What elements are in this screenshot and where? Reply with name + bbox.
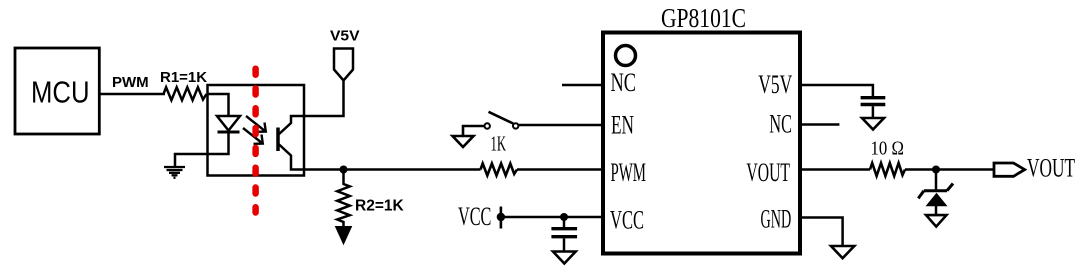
phototransistor Q [278,116,304,170]
ground (zener) [926,215,947,227]
pin NC right stub [800,123,839,126]
LED diode (opto) [217,116,240,132]
zener diode D1 [918,170,953,215]
light arrow 2 [243,128,263,144]
ground (V5V cap) [862,118,884,130]
wire collector to V5V [304,81,344,116]
resistor 10 Ohm [870,163,905,176]
svg-text:1K: 1K [491,132,507,156]
pin1 marker circle [616,46,636,66]
wire emitter to PWM pin [304,168,481,171]
svg-text:VOUT: VOUT [1027,154,1075,183]
svg-text:VCC: VCC [610,206,644,235]
node junction zener [932,166,940,174]
earth ground (LED cathode) [164,167,185,178]
wire switch to EN [519,124,602,127]
svg-text:VOUT: VOUT [746,158,790,187]
red dashed isolation line [252,69,259,213]
VCC pin marker [500,207,503,229]
switch ground [453,126,485,147]
ground (VCC cap) [553,252,576,264]
node junction R2 [340,166,348,174]
V5V power tag [334,49,353,81]
light arrow 1 [246,116,266,132]
svg-text:GP8101C: GP8101C [661,2,746,33]
wire resistor to connector [905,168,994,171]
svg-text:PWM: PWM [611,158,647,187]
wire VOUT pin [800,168,870,171]
svg-text:NC: NC [611,68,637,97]
wire V5V pin to cap [800,85,873,96]
MCU box U2 [15,48,99,134]
svg-text:R1=1K: R1=1K [160,69,207,86]
resistor R1 [164,87,207,100]
capacitor C1 (VCC) [551,217,577,251]
svg-text:MCU: MCU [31,76,90,110]
svg-text:VCC: VCC [458,202,491,231]
VOUT connector tag [994,163,1025,176]
resistor R2 vertical [337,170,350,227]
ground (GND pin) [831,246,854,258]
svg-text:PWM: PWM [112,74,149,91]
svg-text:GND: GND [761,205,792,234]
node junction VCC cap [560,213,568,221]
wire LED anode [208,94,229,116]
svg-text:EN: EN [611,111,634,140]
svg-text:V5V: V5V [758,70,792,99]
svg-text:R2=1K: R2=1K [355,198,404,215]
optocoupler U3 box [208,85,305,176]
wire LED cathode to ground [175,132,229,167]
resistor 1K (PWM line) [481,164,518,176]
R2 arrow to ground (filled) [336,227,352,245]
wire MCU to R1 [99,93,165,96]
wire VCC to pin [501,216,601,219]
switch S1 [485,112,519,129]
pin NC left stub [562,84,601,87]
svg-text:V5V: V5V [330,28,360,45]
wire GND pin to ground [800,218,843,246]
capacitor C2 (V5V) [861,98,886,118]
svg-text:10 Ω: 10 Ω [871,138,904,160]
IC U1 GP8101C box [603,33,800,254]
svg-text:NC: NC [769,109,792,138]
